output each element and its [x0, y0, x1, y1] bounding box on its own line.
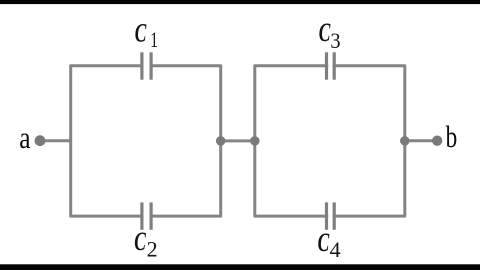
node: junction dot right-mid	[250, 136, 260, 146]
node: junction dot left-mid	[216, 136, 226, 146]
label C4	[318, 228, 341, 262]
svg-text:C: C	[318, 228, 330, 257]
capacitor C1	[140, 52, 152, 79]
capacitor C4	[325, 202, 336, 229]
svg-text:3: 3	[330, 28, 340, 53]
svg-text:4: 4	[330, 237, 341, 262]
wire: left square loop	[71, 66, 221, 216]
top letterbox bar	[0, 0, 480, 4]
wire: right square loop	[255, 66, 405, 216]
wire: terminal a lead	[40, 139, 71, 142]
capacitor C2	[140, 202, 152, 229]
svg-text:C: C	[319, 18, 331, 47]
svg-text:b: b	[446, 119, 458, 154]
wire: middle link between loops	[221, 139, 255, 142]
bottom letterbox bar	[0, 264, 480, 270]
label C2	[134, 227, 157, 261]
svg-text:a: a	[19, 120, 30, 155]
wire: terminal b lead	[405, 139, 437, 142]
svg-text:C: C	[135, 19, 147, 48]
node: junction dot on right square edge	[400, 136, 410, 146]
svg-text:1: 1	[150, 27, 158, 52]
label C1	[135, 19, 158, 53]
capacitor C3	[325, 52, 336, 79]
svg-text:C: C	[134, 227, 146, 256]
svg-text:2: 2	[147, 236, 158, 261]
label C3	[319, 18, 341, 53]
node: terminal b dot	[432, 136, 442, 146]
node: terminal a dot	[35, 135, 46, 146]
